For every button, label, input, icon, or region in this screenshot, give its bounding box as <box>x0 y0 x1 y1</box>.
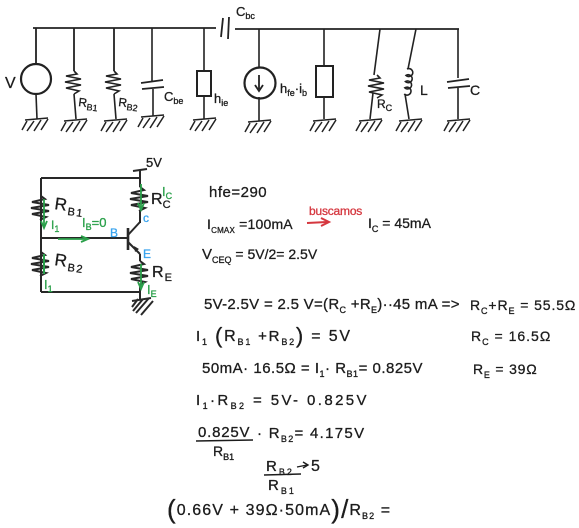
resistor RB1 <box>65 71 81 94</box>
arrow buscamos (red) <box>307 218 329 226</box>
svg-text:5V-2.5V = 2.5 V=(RC +RE)··45 m: 5V-2.5V = 2.5 V=(RC +RE)··45 mA => <box>204 296 460 315</box>
wire RE to ground <box>139 285 141 299</box>
svg-text:RC = 16.5Ω: RC = 16.5Ω <box>471 328 551 347</box>
wire collector supply <box>139 170 141 187</box>
svg-text:Cbe: Cbe <box>164 89 183 106</box>
svg-text:RC: RC <box>377 97 393 113</box>
svg-text:VCEQ = 5V/2= 2.5V: VCEQ = 5V/2= 2.5V <box>202 246 318 265</box>
current arrow IB (base) <box>58 236 88 242</box>
wire L branch <box>408 29 416 69</box>
svg-text:RE: RE <box>152 264 173 284</box>
svg-text:50mA· 16.5Ω = I1· RB1= 0.825V: 50mA· 16.5Ω = I1· RB1= 0.825V <box>202 360 423 379</box>
wire RB2 to ground <box>114 94 116 119</box>
svg-text:RB1: RB1 <box>213 443 234 462</box>
wire hie to ground <box>203 96 205 119</box>
svg-text:RC+RE = 55.5Ω: RC+RE = 55.5Ω <box>470 297 576 316</box>
capacitor Cbe <box>141 80 164 89</box>
wire Rc to collector <box>139 211 141 223</box>
svg-text:5V: 5V <box>146 155 162 170</box>
svg-text:IB=0: IB=0 <box>82 215 106 232</box>
svg-text:hie: hie <box>214 91 228 108</box>
source V <box>21 64 51 94</box>
resistor RB1 (bias) <box>31 196 49 220</box>
ground RB2 <box>101 119 127 132</box>
svg-text:C: C <box>470 82 480 98</box>
svg-text:ICMAX =100mA: ICMAX =100mA <box>207 216 293 235</box>
svg-text:· RB2= 4.175V: · RB2= 4.175V <box>257 425 365 444</box>
svg-text:I1: I1 <box>44 277 53 294</box>
wire RB2 branch <box>113 28 115 71</box>
current arrow I1 (upper) <box>41 199 47 228</box>
wire C branch <box>457 29 459 78</box>
resistor Rc (bias) <box>130 187 148 211</box>
wire hfe.ib to ground <box>258 97 260 121</box>
wire Rc branch <box>374 29 380 75</box>
svg-text:E: E <box>143 247 151 261</box>
ground L <box>396 119 422 132</box>
wire RB1 to ground <box>74 94 76 119</box>
current arrow IE (green) <box>138 264 144 289</box>
wire V branch <box>35 28 37 64</box>
ground hie <box>190 118 216 131</box>
svg-text:Cbc: Cbc <box>236 4 255 21</box>
wire 5V terminal bar <box>133 169 147 171</box>
svg-text:RB1: RB1 <box>268 477 296 496</box>
wire top bus right <box>235 28 459 30</box>
svg-text:IE: IE <box>147 282 157 299</box>
svg-text:B: B <box>110 226 118 240</box>
wire Cbe to ground <box>152 89 154 116</box>
resistor Rc <box>368 75 384 98</box>
wire box branch <box>323 29 325 66</box>
current trace I1 over RB2 (green) <box>43 254 45 274</box>
wire C to ground <box>457 88 459 119</box>
capacitor C <box>447 79 470 88</box>
svg-text:hfe·ib: hfe·ib <box>280 81 307 98</box>
svg-text:RE = 39Ω: RE = 39Ω <box>473 361 538 380</box>
svg-text:I1 (RB1 +RB2) = 5V: I1 (RB1 +RB2) = 5V <box>196 323 352 348</box>
svg-text:RB1: RB1 <box>77 95 98 113</box>
svg-text:I1: I1 <box>51 218 59 234</box>
inductor L <box>404 69 413 96</box>
wire hie branch <box>203 28 205 71</box>
svg-text:hfe=290: hfe=290 <box>209 184 267 201</box>
svg-text:IC = 45mA: IC = 45mA <box>368 215 432 234</box>
ground box <box>310 119 336 132</box>
wire top bus (bias) <box>41 177 140 179</box>
svg-text:RB2: RB2 <box>53 250 86 276</box>
wire RB1 branch <box>73 28 75 71</box>
svg-text:(0.66V + 39Ω·50mA)/RB2 =: (0.66V + 39Ω·50mA)/RB2 = <box>167 494 391 524</box>
current arrow Ic (green) <box>138 184 144 210</box>
svg-text:L: L <box>420 82 428 98</box>
resistor hie (box) <box>197 71 211 96</box>
svg-text:IC: IC <box>162 184 173 201</box>
source hfe.ib (dependent current source) <box>245 68 276 99</box>
ground emitter <box>132 298 153 315</box>
wire left rail <box>40 178 42 292</box>
ground Cbe <box>138 115 164 128</box>
wire box to ground <box>323 97 325 119</box>
resistor RB2 <box>105 71 121 94</box>
wire Rc to ground <box>370 93 373 119</box>
ground hfe.ib <box>245 120 271 133</box>
ground C <box>444 119 470 132</box>
wire L to ground <box>405 94 409 119</box>
resistor RE (bias) <box>130 261 148 285</box>
resistor RB2 (bias) <box>31 252 49 276</box>
svg-text:5: 5 <box>311 458 320 475</box>
svg-text:RB2: RB2 <box>117 95 138 113</box>
wire hfe.ib branch <box>258 29 260 68</box>
ground RB1 <box>61 119 87 132</box>
transistor Q1 <box>128 222 140 254</box>
wire base <box>41 237 128 239</box>
svg-text:buscamos: buscamos <box>309 204 362 218</box>
ground Rc <box>356 119 382 132</box>
ground V <box>22 118 48 131</box>
wire bottom rail <box>41 291 140 293</box>
capacitor Cbc <box>221 17 229 39</box>
svg-text:c: c <box>143 211 149 225</box>
svg-text:0.825V: 0.825V <box>198 424 250 441</box>
svg-text:V: V <box>5 75 16 92</box>
wire emitter <box>139 254 141 261</box>
wire top bus left <box>33 27 216 29</box>
wire V to ground <box>36 94 37 119</box>
svg-text:I1·RB2 = 5V- 0.825V: I1·RB2 = 5V- 0.825V <box>196 392 369 411</box>
resistor box (ro) <box>316 66 333 97</box>
wire Cbe branch <box>151 28 153 81</box>
